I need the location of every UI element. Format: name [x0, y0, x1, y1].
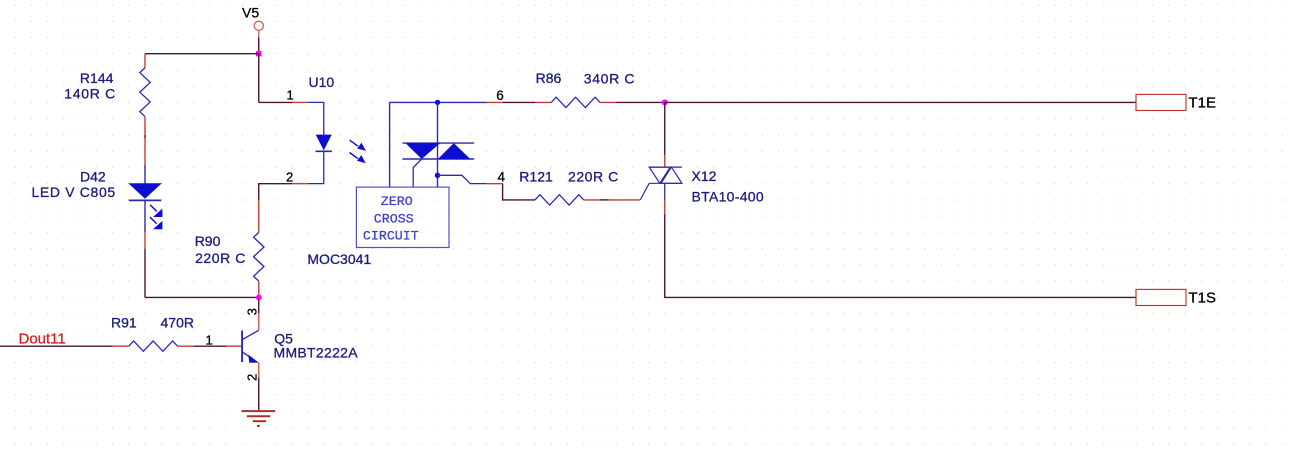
op U10 light arrow 1 — [350, 140, 366, 151]
triac X12 right triangle — [661, 167, 682, 183]
svg-text:220R C: 220R C — [568, 169, 619, 185]
wire X12 to T1S — [665, 215, 1136, 298]
wire junction to X12 — [664, 102, 666, 155]
op U10 pin 4 — [487, 183, 503, 185]
triac X12 gate pin — [609, 199, 641, 201]
op U10 pin1 lead — [308, 102, 324, 135]
transistor Q5 base bar — [241, 331, 243, 362]
triac X12 bottom lead — [664, 183, 666, 200]
op U10 LED triangle — [316, 135, 332, 151]
resistor R144 — [140, 68, 150, 117]
wire pin4 corner — [503, 184, 519, 200]
triac X12 gate lead — [640, 183, 649, 200]
op U10 pin 2 — [292, 183, 308, 185]
transistor Q5 emitter lead — [243, 352, 253, 358]
svg-text:V5: V5 — [242, 4, 259, 20]
op U10 pin 1 — [292, 101, 308, 103]
wire Dout11 — [0, 345, 113, 347]
op U10 pin4 lead — [438, 175, 487, 183]
triac X12 left triangle — [649, 167, 670, 183]
svg-text:MMBT2222A: MMBT2222A — [274, 344, 359, 360]
resistor R121 right pin — [584, 199, 600, 201]
resistor R91 — [129, 341, 178, 351]
transistor Q5 emitter arrow — [248, 355, 259, 363]
op U10 light arrow 2 — [350, 153, 366, 164]
svg-text:MOC3041: MOC3041 — [307, 251, 371, 267]
resistor R90 bottom pin — [258, 281, 260, 297]
svg-text:R91: R91 — [111, 314, 137, 330]
svg-text:ZERO: ZERO — [381, 194, 413, 209]
svg-text:R121: R121 — [519, 169, 553, 185]
resistor R91 left pin — [113, 345, 129, 347]
wire R86 to junction — [616, 101, 665, 103]
resistor R90 top pin — [258, 200, 260, 233]
svg-text:340R C: 340R C — [584, 70, 635, 86]
wire D42 bottom horizontal — [145, 296, 259, 298]
svg-text:CIRCUIT: CIRCUIT — [363, 228, 419, 243]
resistor R121 left pin — [519, 199, 535, 201]
diode D42 cathode pin — [144, 232, 146, 249]
op U10 triac bottom line — [402, 158, 474, 160]
op U10 LED cathode bar — [316, 150, 332, 152]
diode D42 light arrow 1 — [150, 205, 162, 217]
op U10 junction dot top — [435, 100, 440, 105]
svg-text:BTA10-400: BTA10-400 — [692, 189, 764, 205]
op U10 triac vertical — [437, 102, 439, 187]
triac X12 bottom line — [649, 182, 682, 184]
resistor R144 bottom pin — [144, 117, 146, 131]
op U10 junction dot pin4 — [435, 173, 440, 178]
resistor R86 — [551, 97, 600, 107]
diode D42 triangle — [128, 183, 162, 199]
triac X12 top pin — [664, 155, 666, 167]
diode D42 anode pin — [144, 131, 146, 165]
svg-text:3: 3 — [245, 308, 260, 315]
wire emitter to ground — [258, 378, 260, 411]
diode D42 cathode bar — [129, 199, 161, 201]
resistor R86 left pin — [535, 101, 551, 103]
svg-text:1: 1 — [206, 332, 213, 347]
diode D42 light arrow 2 — [150, 217, 162, 229]
wire junction to U10 pin1 vertical — [258, 54, 260, 103]
op U10 triac left triangle — [406, 143, 441, 159]
svg-text:T1S: T1S — [1189, 290, 1217, 307]
wire R121 to gate — [600, 199, 609, 201]
svg-text:R90: R90 — [195, 233, 221, 249]
port T1S box — [1136, 289, 1186, 305]
transistor Q5 collector lead — [243, 330, 259, 339]
wire T1E — [665, 101, 1136, 103]
triac X12 bottom pin — [664, 200, 666, 215]
resistor R86 right pin — [600, 101, 616, 103]
port T1E box — [1136, 94, 1186, 110]
op U10 LED cathode lead — [308, 151, 324, 183]
svg-text:220R C: 220R C — [195, 250, 246, 266]
junction at T1E node — [662, 99, 668, 105]
svg-text:T1E: T1E — [1189, 95, 1217, 112]
resistor R90 — [254, 232, 264, 281]
wire D42 to junction vertical — [144, 249, 146, 297]
resistor R91 right pin — [178, 345, 194, 347]
junction at V5 rail — [256, 51, 261, 56]
diode D42 cathode lead — [144, 200, 146, 232]
svg-text:X12: X12 — [692, 168, 717, 184]
svg-text:470R: 470R — [161, 314, 194, 330]
ground — [242, 411, 276, 426]
op U10 pin1-side lead into box — [389, 102, 391, 187]
op U10 zero cross box — [356, 187, 449, 247]
svg-text:Dout11: Dout11 — [19, 331, 66, 348]
triac X12 top line — [649, 166, 682, 168]
svg-text:1: 1 — [287, 87, 294, 102]
junction at collector node — [256, 295, 262, 301]
svg-text:2: 2 — [245, 374, 260, 381]
transistor Q5 emitter pin — [258, 362, 260, 378]
op U10 pin 6 — [487, 101, 503, 103]
op U10 triac right triangle — [438, 143, 470, 159]
op U10 triac gate lead — [413, 159, 422, 187]
svg-text:2: 2 — [286, 170, 293, 185]
diode D42 anode lead — [144, 165, 146, 184]
transistor Q5 collector pin — [258, 300, 260, 331]
svg-text:4: 4 — [498, 170, 506, 185]
wire V5 to junction — [258, 31, 260, 54]
op U10 triac top line — [402, 142, 474, 144]
op U10 pin6 rail — [390, 101, 487, 103]
wire to U10 pin1 — [259, 101, 292, 103]
wire R91 to Q5 base — [194, 345, 227, 347]
svg-text:CROSS: CROSS — [374, 212, 414, 227]
svg-text:R144: R144 — [80, 70, 114, 86]
power port V5 circle — [254, 21, 263, 30]
svg-text:R86: R86 — [536, 70, 562, 86]
wire pin6 to R86 — [503, 101, 535, 103]
svg-text:D42: D42 — [80, 168, 106, 184]
svg-text:U10: U10 — [309, 74, 335, 90]
wire V5 rail horizontal — [145, 53, 259, 55]
svg-text:6: 6 — [496, 88, 504, 103]
transistor Q5 base pin — [226, 345, 242, 347]
svg-text:LED V C805: LED V C805 — [32, 184, 116, 200]
svg-text:140R C: 140R C — [64, 86, 116, 102]
resistor R121 — [535, 195, 584, 205]
wire U10 pin2 to R90 — [259, 184, 292, 200]
resistor R144 top pin — [144, 54, 146, 68]
